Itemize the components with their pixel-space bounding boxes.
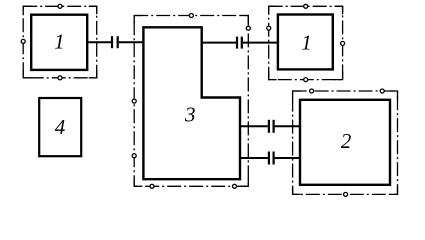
svg-text:2: 2 <box>341 129 352 153</box>
block 4 <box>39 98 81 156</box>
ground terminal circle top-right of frame 2 <box>380 89 384 93</box>
shield frame (dash-dot) around unit 3 <box>134 16 248 187</box>
ground terminal circle right of frame 3 <box>246 26 250 30</box>
shield frame (dash-dot) around unit 1 top-left <box>23 6 97 78</box>
wire from block1-TL to capacitor C1 <box>88 41 111 43</box>
wire from block 3 to capacitor C4 <box>240 157 268 159</box>
ground terminal circle bottom-right of frame 3 <box>233 184 237 188</box>
capacitor C2 left plate <box>236 37 238 49</box>
capacitor C1 left plate <box>111 36 113 48</box>
frame corners top-left unit <box>23 6 97 78</box>
svg-text:3: 3 <box>184 102 196 126</box>
block 2 <box>300 100 390 185</box>
ground terminal circle left of left frame <box>21 39 25 43</box>
block 1 (top-left) <box>31 15 87 70</box>
frame corners unit 3 <box>134 16 248 187</box>
ground terminal circle top of frame 3 <box>189 14 193 18</box>
ground terminal circle right of right frame <box>341 41 345 45</box>
wire from capacitor C4 to block 2 <box>275 157 300 159</box>
capacitor C4 right plate <box>273 152 275 165</box>
wire from block 3 to capacitor C3 <box>240 125 268 127</box>
capacitor C3 left plate <box>268 120 270 133</box>
ground terminal circle upper-left of frame 3 <box>132 99 136 103</box>
ground terminal circle bottom-left of frame 3 <box>150 184 154 188</box>
wire from block 3 to capacitor C2 <box>202 42 236 44</box>
shield frame (dash-dot) around unit 2 <box>293 91 398 194</box>
wire from capacitor C3 to block 2 <box>275 125 300 127</box>
wire from capacitor C1 to block 3 <box>119 41 144 43</box>
capacitor C4 left plate <box>268 152 270 165</box>
svg-text:1: 1 <box>54 30 65 54</box>
ground terminal circle bottom of right frame <box>304 78 308 82</box>
svg-text:1: 1 <box>301 31 312 55</box>
ground terminal circle bottom of frame 2 <box>344 192 348 196</box>
capacitor C2 right plate <box>241 37 243 49</box>
frame corners top-right unit <box>269 6 343 79</box>
capacitor C1 right plate <box>117 36 119 48</box>
ground terminal circle left of right frame <box>267 26 271 30</box>
ground terminal circle top-left of frame 2 <box>310 89 314 93</box>
block 3 (L-shaped) <box>143 27 240 179</box>
wire from capacitor C2 to block 1 top-right <box>243 42 277 44</box>
capacitor C3 right plate <box>273 120 275 133</box>
ground terminal circle lower-left of frame 3 <box>132 154 136 158</box>
svg-text:4: 4 <box>55 115 66 139</box>
ground terminal circle bottom of left frame <box>58 76 62 80</box>
block 1 (top-right) <box>278 15 333 70</box>
ground terminal circle top of left frame <box>58 4 62 8</box>
shield frame (dash-dot) around unit 1 top-right <box>269 6 343 79</box>
ground terminal circle top of right frame <box>304 4 308 8</box>
frame corners unit 2 <box>293 91 398 194</box>
